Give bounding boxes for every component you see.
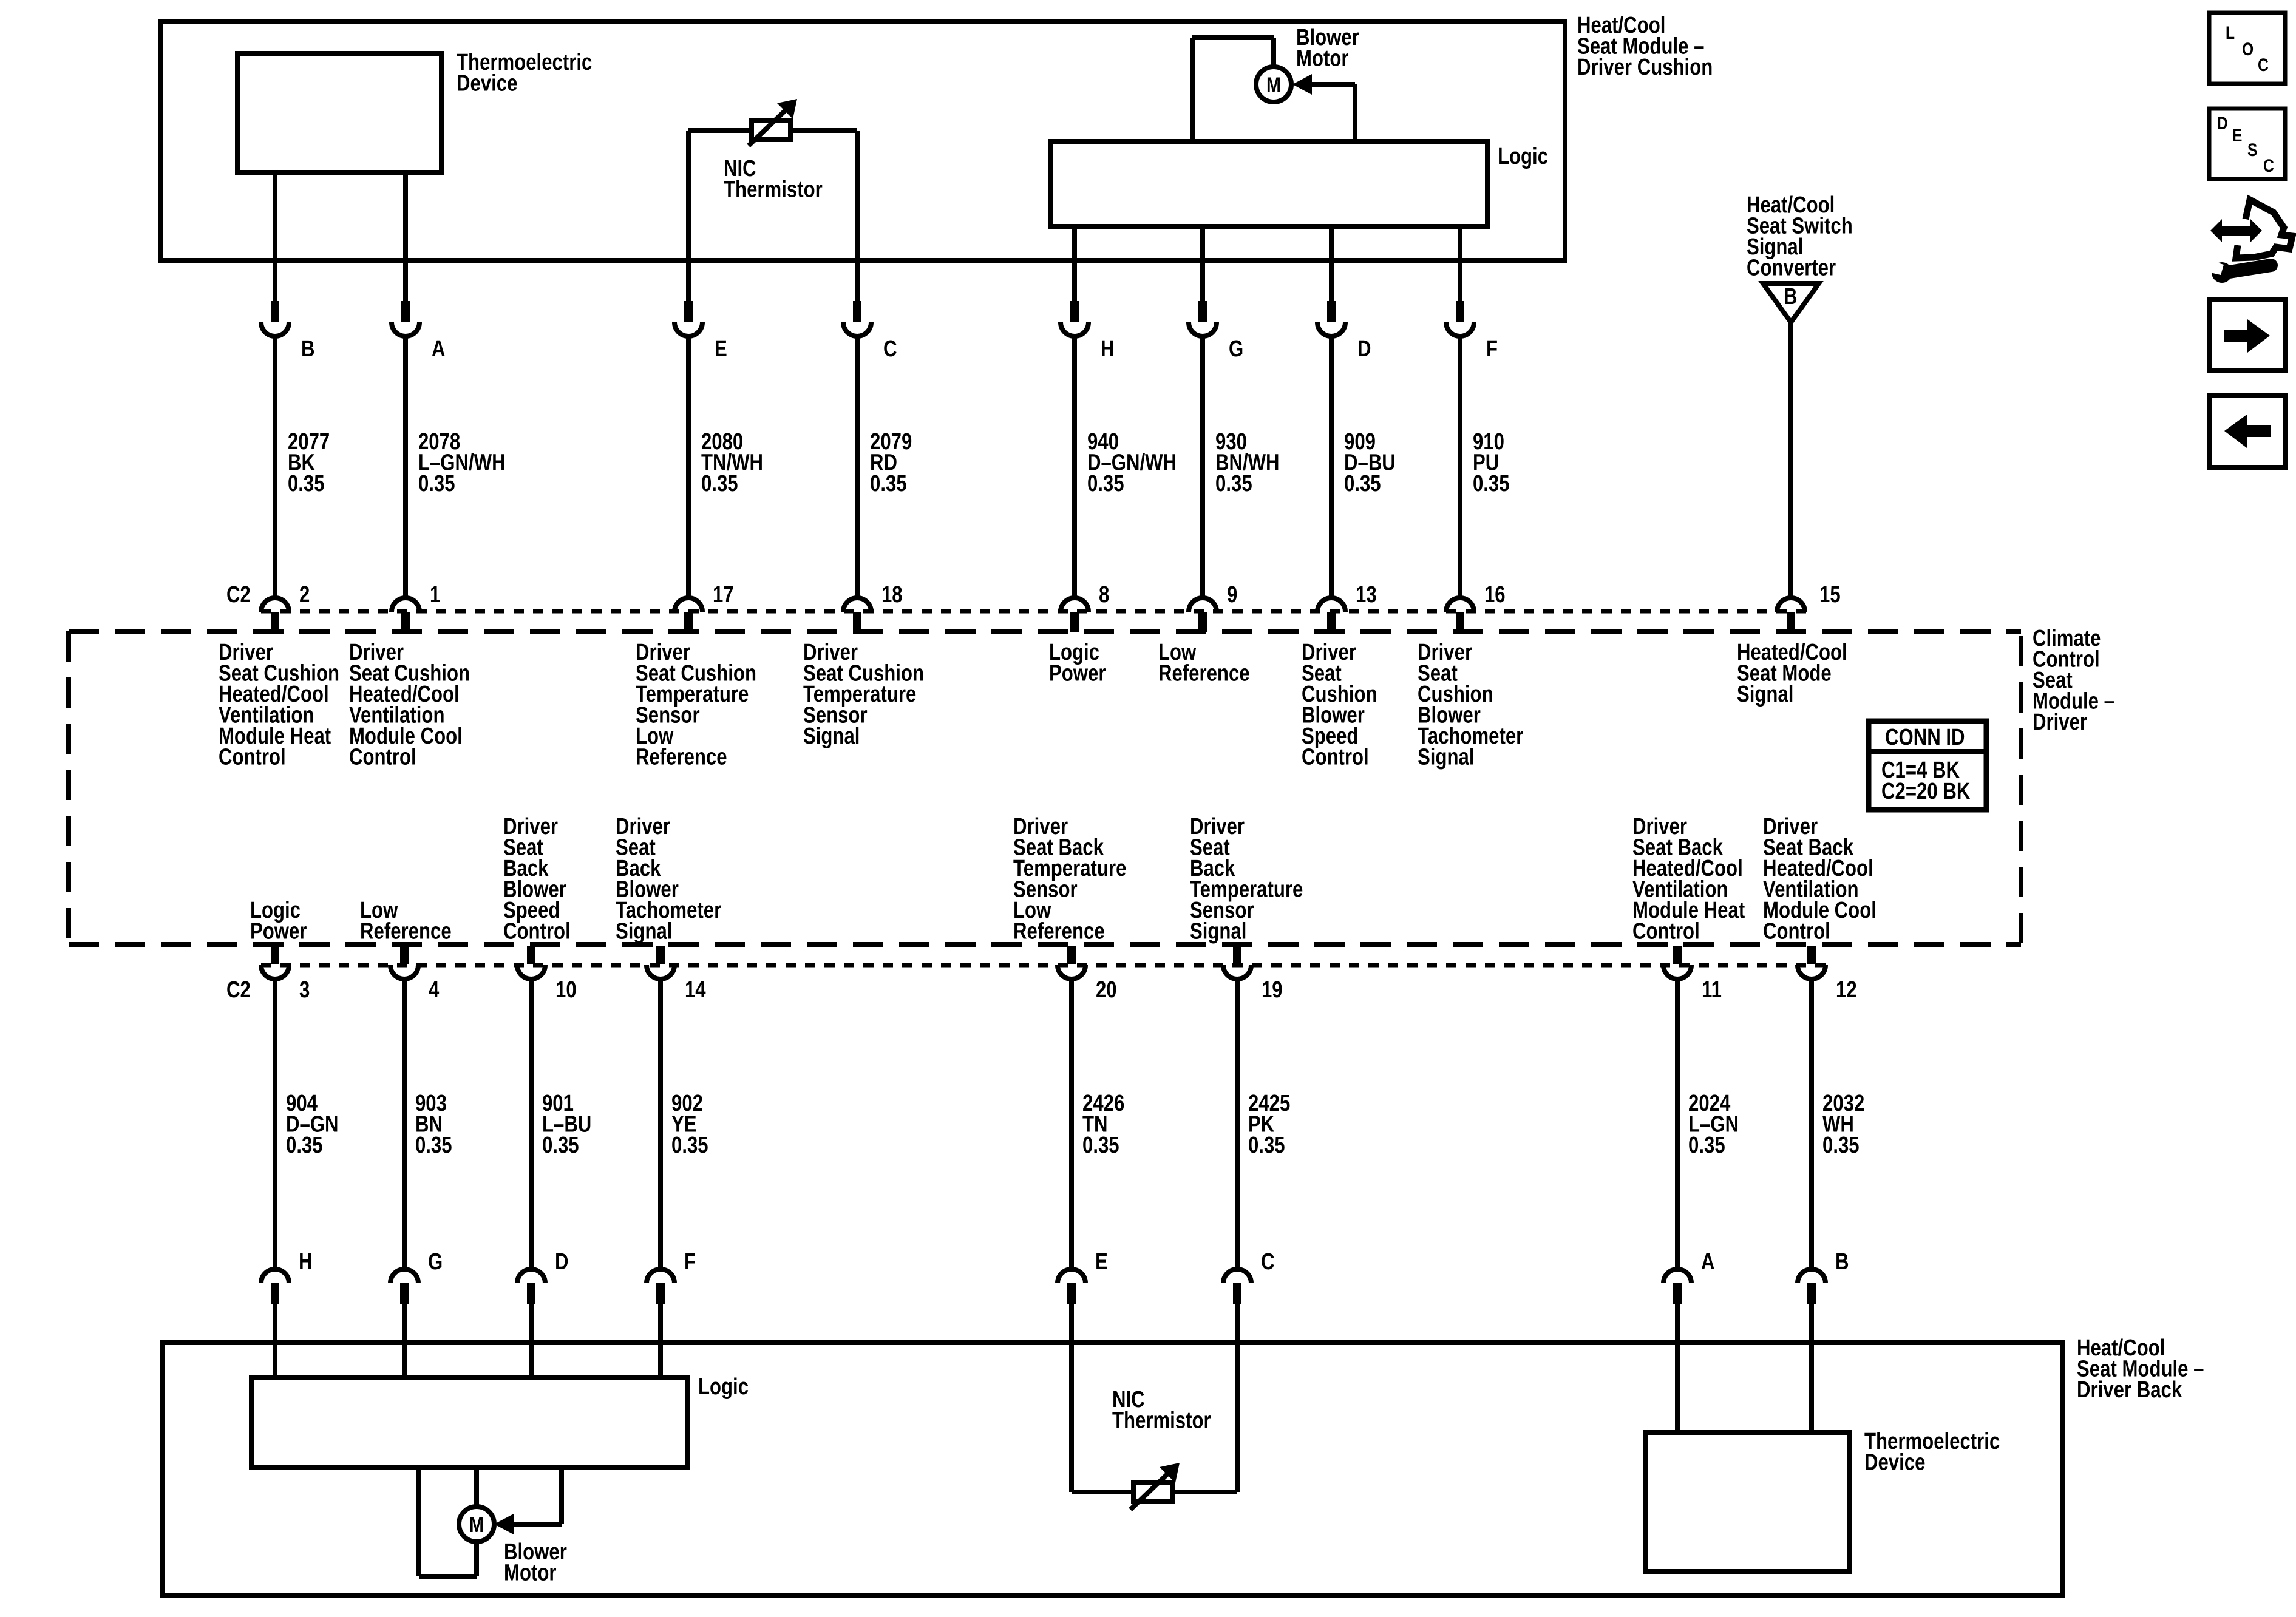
svg-text:C2=20 BK: C2=20 BK: [1881, 779, 1970, 804]
svg-text:16: 16: [1484, 582, 1506, 608]
svg-text:Power: Power: [1049, 661, 1106, 686]
svg-text:15: 15: [1819, 582, 1841, 608]
svg-text:Motor: Motor: [504, 1561, 556, 1586]
svg-text:Thermistor: Thermistor: [1112, 1408, 1211, 1434]
svg-text:Reference: Reference: [360, 919, 452, 944]
svg-text:Reference: Reference: [636, 745, 727, 770]
svg-text:1: 1: [430, 582, 440, 608]
svg-text:0.35: 0.35: [1215, 471, 1252, 497]
svg-text:F: F: [1486, 336, 1498, 362]
svg-text:L: L: [2226, 22, 2235, 43]
svg-text:Signal: Signal: [1737, 682, 1793, 707]
svg-text:0.35: 0.35: [1688, 1133, 1725, 1158]
svg-text:D: D: [1357, 336, 1371, 362]
svg-text:3: 3: [299, 977, 310, 1003]
svg-text:0.35: 0.35: [415, 1133, 452, 1158]
svg-text:Signal: Signal: [803, 724, 860, 749]
svg-text:Reference: Reference: [1013, 919, 1105, 944]
svg-text:F: F: [684, 1249, 696, 1275]
svg-text:CONN ID: CONN ID: [1885, 725, 1965, 750]
svg-text:9: 9: [1227, 582, 1237, 608]
svg-text:H: H: [299, 1249, 313, 1275]
svg-text:B: B: [1784, 284, 1798, 310]
svg-text:C: C: [2258, 55, 2269, 75]
svg-text:Reference: Reference: [1158, 661, 1250, 686]
svg-text:H: H: [1101, 336, 1115, 362]
svg-text:E: E: [715, 336, 727, 362]
svg-text:0.35: 0.35: [286, 1133, 323, 1158]
svg-text:Device: Device: [457, 71, 517, 97]
svg-text:Control: Control: [1302, 745, 1369, 770]
svg-text:Control: Control: [1632, 919, 1700, 944]
svg-text:19: 19: [1262, 977, 1283, 1003]
svg-text:0.35: 0.35: [542, 1133, 579, 1158]
svg-text:0.35: 0.35: [1822, 1133, 1860, 1158]
svg-text:D: D: [2217, 113, 2228, 134]
svg-text:Signal: Signal: [616, 919, 672, 944]
svg-text:D: D: [555, 1249, 569, 1275]
svg-text:13: 13: [1356, 582, 1377, 608]
svg-text:18: 18: [881, 582, 903, 608]
svg-text:10: 10: [555, 977, 577, 1003]
svg-text:G: G: [428, 1249, 443, 1275]
svg-text:0.35: 0.35: [701, 471, 738, 497]
svg-text:0.35: 0.35: [288, 471, 325, 497]
svg-text:Device: Device: [1864, 1450, 1925, 1476]
svg-text:8: 8: [1099, 582, 1109, 608]
svg-text:E: E: [2232, 125, 2242, 146]
svg-text:0.35: 0.35: [671, 1133, 708, 1158]
svg-text:S: S: [2247, 140, 2257, 160]
svg-text:E: E: [1095, 1249, 1108, 1275]
svg-text:0.35: 0.35: [870, 471, 907, 497]
svg-text:0.35: 0.35: [1248, 1133, 1285, 1158]
svg-text:Control: Control: [219, 745, 286, 770]
svg-text:M: M: [469, 1513, 484, 1536]
svg-text:B: B: [1835, 1249, 1849, 1275]
svg-text:G: G: [1229, 336, 1243, 362]
svg-text:0.35: 0.35: [1087, 471, 1124, 497]
svg-text:Driver: Driver: [2033, 710, 2087, 735]
svg-text:17: 17: [713, 582, 734, 608]
svg-text:Converter: Converter: [1747, 256, 1836, 281]
svg-text:C2: C2: [226, 582, 251, 608]
svg-text:4: 4: [429, 977, 440, 1003]
svg-text:2: 2: [299, 582, 310, 608]
svg-text:Thermistor: Thermistor: [724, 177, 823, 203]
svg-text:M: M: [1266, 73, 1281, 97]
svg-text:0.35: 0.35: [1344, 471, 1381, 497]
svg-text:0.35: 0.35: [1082, 1133, 1119, 1158]
svg-text:C: C: [883, 336, 897, 362]
svg-text:B: B: [301, 336, 315, 362]
svg-text:C2: C2: [226, 977, 251, 1003]
svg-text:0.35: 0.35: [418, 471, 455, 497]
svg-text:Driver Back: Driver Back: [2077, 1377, 2182, 1403]
svg-text:C: C: [2263, 155, 2274, 176]
svg-text:11: 11: [1702, 977, 1722, 1003]
svg-text:12: 12: [1836, 977, 1857, 1003]
svg-text:Logic: Logic: [1498, 144, 1548, 169]
svg-text:0.35: 0.35: [1473, 471, 1510, 497]
svg-text:Logic: Logic: [698, 1374, 749, 1400]
svg-text:A: A: [1701, 1249, 1715, 1275]
svg-text:Control: Control: [1763, 919, 1830, 944]
svg-text:Control: Control: [349, 745, 416, 770]
svg-text:14: 14: [685, 977, 706, 1003]
svg-text:Control: Control: [503, 919, 571, 944]
svg-text:Power: Power: [250, 919, 307, 944]
svg-text:20: 20: [1096, 977, 1117, 1003]
svg-text:Driver Cushion: Driver Cushion: [1577, 55, 1713, 80]
svg-text:O: O: [2242, 39, 2254, 59]
svg-text:A: A: [432, 336, 446, 362]
svg-text:C: C: [1261, 1249, 1275, 1275]
svg-text:Signal: Signal: [1190, 919, 1246, 944]
svg-text:Signal: Signal: [1418, 745, 1474, 770]
svg-text:Motor: Motor: [1296, 46, 1348, 72]
